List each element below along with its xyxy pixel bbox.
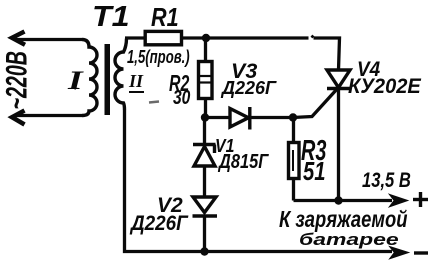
- label V1 type D815G: [219, 152, 268, 172]
- wire plus output line with arrow: [294, 195, 408, 207]
- wire junction to R2: [204, 38, 207, 60]
- smudge dot after winding I label: [74, 87, 77, 90]
- node junction top (R2 tap): [202, 34, 210, 42]
- wire V1 anode to V2 anode: [203, 166, 206, 197]
- resistor R1: [145, 31, 181, 44]
- label R1: [151, 4, 179, 30]
- transformer T1 secondary winding II: [115, 39, 126, 111]
- node junction left of V3: [201, 113, 209, 121]
- thyristor V4: [327, 70, 350, 89]
- wire R3 to plus line: [292, 180, 295, 201]
- label V1: [215, 137, 234, 155]
- label V3: [231, 61, 257, 83]
- wire V2 cathode down to bottom rail: [203, 216, 206, 252]
- label output voltage 13,5 V: [362, 170, 411, 191]
- wire V3 cathode to R3 junction: [250, 116, 294, 119]
- wire R3 junction to R3: [292, 118, 295, 142]
- transformer T1 primary winding I: [82, 40, 97, 116]
- label to charged battery line1: [279, 208, 407, 231]
- minus sign: [414, 251, 428, 254]
- wire bottom rail from transformer to minus arrow: [125, 110, 408, 258]
- resistor R2: [199, 62, 213, 99]
- transformer T1 core: [105, 44, 111, 115]
- resistor R3: [289, 143, 300, 179]
- wire gate lead to thyristor V4: [293, 89, 338, 118]
- diode V2: [193, 197, 218, 216]
- label R3 value 51: [303, 158, 326, 184]
- wire V4 cathode down to plus line: [337, 89, 340, 201]
- label V2: [157, 195, 183, 216]
- wire junction to V3 anode: [205, 116, 230, 119]
- node junction bottom rail: [200, 247, 208, 255]
- label T1: [92, 3, 130, 32]
- label R2 value 30: [173, 88, 190, 108]
- node junction above R3: [289, 113, 297, 121]
- diode V3: [230, 107, 250, 130]
- label R1 value 1,5 wire: [127, 48, 190, 66]
- wire V3 junction down through V1 V2 chain: [203, 118, 206, 144]
- smudge dash under R1 value: [149, 102, 159, 103]
- label winding I: [68, 68, 83, 94]
- node junction plus line V4: [334, 196, 342, 204]
- label V4 type KU202E: [348, 76, 421, 97]
- wire R1 to top-right corner and down to V4 anode: [183, 35, 340, 70]
- label V2 type D226G: [131, 213, 188, 234]
- svg-text:~220В: ~220В: [1, 51, 34, 110]
- label V4: [357, 59, 380, 80]
- label V3 type D226G: [222, 79, 276, 97]
- wire secondary top to R1: [125, 36, 145, 39]
- zener diode V1: [193, 145, 216, 167]
- plus sign: [413, 192, 428, 207]
- label R3: [301, 137, 326, 166]
- label R2: [169, 72, 189, 95]
- wire primary top lead with input arrow: [12, 32, 82, 45]
- wire primary bottom lead with input arrow: [12, 111, 82, 125]
- label winding II: [129, 72, 144, 93]
- label to charged battery line2: [299, 231, 399, 248]
- wire R2 to V3 row: [204, 100, 207, 118]
